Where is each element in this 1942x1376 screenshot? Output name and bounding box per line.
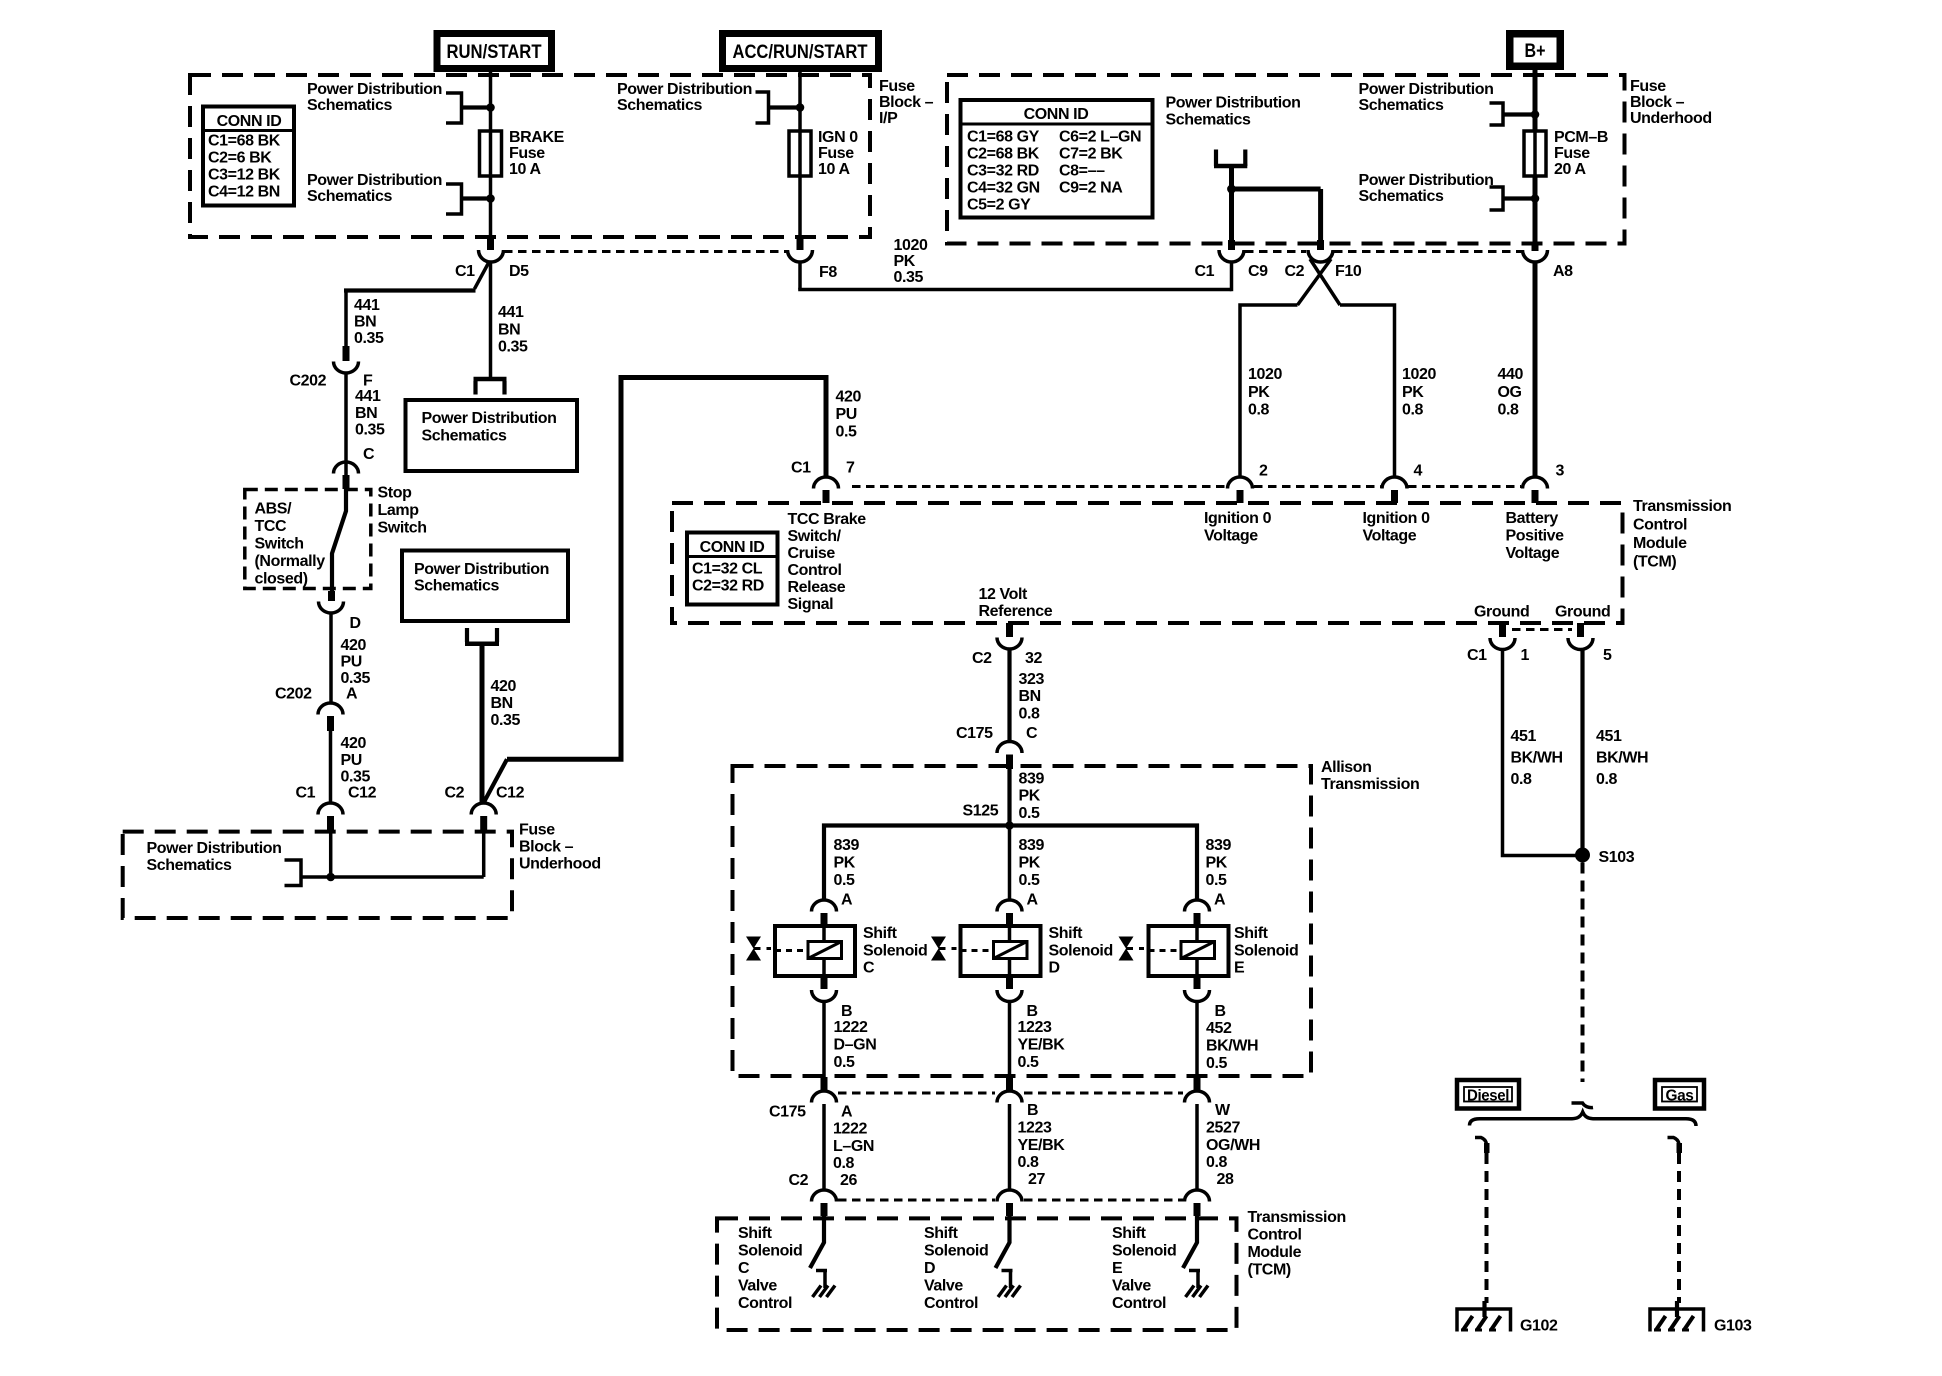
shift solenoid D internal dashed link [961, 949, 994, 952]
connector face dashed line F10 to A8 [1334, 250, 1521, 253]
svg-text:Switch: Switch [378, 520, 427, 537]
svg-text:S103: S103 [1599, 849, 1635, 866]
svg-text:C9=2 NA: C9=2 NA [1059, 180, 1123, 197]
wire BRAKE fuse to D5 [489, 176, 493, 237]
svg-text:C12: C12 [348, 785, 377, 802]
svg-text:Schematics: Schematics [414, 578, 499, 595]
wire IGN fuse to F8 [798, 176, 802, 237]
connector face dashed line D5 to F8 [504, 250, 786, 253]
wire 1222 L-GN [822, 1104, 826, 1190]
wire 440 OG A8 to pin3 [1533, 262, 1538, 477]
svg-text:C1: C1 [455, 263, 475, 280]
label 323 BN 0.8 [1019, 671, 1045, 723]
wire C9 down [1230, 262, 1234, 291]
connector C2/32 cup [997, 638, 1022, 650]
wire 323 BN [1007, 649, 1011, 742]
svg-text:Power Distribution: Power Distribution [422, 410, 557, 427]
label Ignition 0 Voltage (pin2) [1204, 510, 1272, 545]
svg-text:Lamp: Lamp [378, 502, 420, 519]
connector C2/C12 stub [480, 816, 487, 832]
svg-text:D–GN: D–GN [834, 1037, 877, 1054]
wire C175/C to S125 [1007, 769, 1011, 826]
ground (solenoid C driver) [813, 1286, 836, 1298]
wire 1223 YE/BK [1008, 1002, 1012, 1092]
svg-text:D: D [924, 1260, 935, 1277]
svg-text:CONN ID: CONN ID [217, 113, 282, 130]
svg-text:441: 441 [355, 388, 381, 405]
reference text Power Distribution Schematics (lower-left) [147, 840, 282, 874]
svg-text:3: 3 [1556, 463, 1565, 480]
svg-text:F10: F10 [1335, 263, 1362, 280]
svg-text:0.5: 0.5 [1206, 1055, 1228, 1072]
wire C1 to C2 inside box [301, 875, 484, 879]
svg-text:A: A [1214, 892, 1226, 909]
svg-text:5: 5 [1603, 647, 1612, 664]
svg-text:0.5: 0.5 [1206, 872, 1228, 889]
label 452 BK/WH 0.5 [1206, 1020, 1258, 1072]
svg-text:PU: PU [341, 654, 362, 671]
svg-text:C8=––: C8=–– [1059, 163, 1105, 180]
junction dot [1531, 110, 1540, 119]
fuse BRAKE 10A [480, 131, 502, 176]
label 451 BK/WH 0.8 (right) [1596, 728, 1648, 788]
label 1223 YE/BK 0.5 [1018, 1019, 1066, 1071]
svg-text:Shift: Shift [1112, 1225, 1147, 1242]
connector C1/C9 cup [1219, 250, 1244, 262]
svg-text:BN: BN [355, 405, 377, 422]
svg-text:Shift: Shift [863, 925, 898, 942]
svg-text:Valve: Valve [1112, 1278, 1151, 1295]
shift solenoid E box [1149, 926, 1229, 976]
wire 2527 OG/WH [1195, 1104, 1199, 1190]
svg-text:Voltage: Voltage [1204, 528, 1258, 545]
svg-text:Release: Release [788, 579, 846, 596]
svg-text:(TCM): (TCM) [1633, 554, 1676, 571]
svg-text:C4=32 GN: C4=32 GN [967, 180, 1040, 197]
inline connector hook (Gas branch) [1668, 1138, 1680, 1145]
label 1223 YE/BK 0.8 [1018, 1120, 1066, 1172]
svg-text:Schematics: Schematics [307, 97, 392, 114]
shift solenoid E pin A stub [1194, 913, 1201, 926]
svg-text:B: B [1027, 1003, 1038, 1020]
valve symbol (solenoid C) [746, 937, 761, 961]
connector C2/28 stub [1194, 1203, 1201, 1216]
wire 420 PU riser from fuse block to TCC [507, 378, 826, 760]
svg-text:Power Distribution: Power Distribution [1359, 81, 1494, 98]
svg-text:Voltage: Voltage [1363, 528, 1417, 545]
svg-text:C4=12 BN: C4=12 BN [208, 184, 280, 201]
svg-text:Control: Control [738, 1295, 792, 1312]
label 441 BN 0.35 (below C202) [355, 388, 385, 439]
Allison Transmission dashed box [733, 766, 1312, 1076]
label 12 Volt Reference [979, 586, 1053, 620]
label 420 PU 0.35 (lower) [341, 735, 371, 786]
svg-text:C2=6 BK: C2=6 BK [208, 150, 272, 167]
label Battery Positive Voltage [1506, 510, 1565, 562]
svg-text:10 A: 10 A [818, 161, 850, 178]
label 441 BN 0.35 (D5 branch) [498, 304, 528, 356]
connector C1/C12 dome [318, 803, 343, 815]
connector C175/B stub [1006, 1077, 1013, 1090]
shift solenoid E internal dashed link [1149, 949, 1182, 952]
svg-text:Power Distribution: Power Distribution [617, 81, 752, 98]
svg-text:Underhood: Underhood [1630, 110, 1712, 127]
reference text Power Distribution Schematics (PCM lower) [1359, 172, 1494, 205]
svg-text:ACC/RUN/START: ACC/RUN/START [733, 42, 868, 63]
svg-text:C202: C202 [290, 373, 327, 390]
svg-text:Shift: Shift [1234, 925, 1269, 942]
svg-text:PK: PK [894, 253, 916, 270]
svg-text:C: C [363, 446, 375, 463]
reference bracket (IGN) [756, 92, 769, 123]
connector C2/27 dome [997, 1190, 1022, 1202]
svg-text:A: A [346, 686, 358, 703]
label Shift Solenoid E [1234, 925, 1298, 977]
connector C2/28 dome [1185, 1190, 1210, 1202]
wire 420 BN down to C2/C12 [480, 644, 485, 803]
valve symbol (solenoid D) [931, 937, 946, 961]
svg-text:Control: Control [1633, 517, 1687, 534]
svg-text:Control: Control [1112, 1295, 1166, 1312]
svg-text:BRAKE: BRAKE [509, 129, 565, 146]
label 839 PK 0.5 (top) [1019, 771, 1045, 823]
connector face dashed line TCM top [852, 485, 1226, 488]
schematic entry symbol (mid top) [1216, 150, 1245, 167]
svg-text:PK: PK [1206, 855, 1228, 872]
connector face dashed line C2 row [838, 1199, 995, 1202]
svg-text:C1: C1 [1195, 263, 1215, 280]
svg-text:Diesel: Diesel [1467, 1088, 1509, 1105]
svg-text:Fuse: Fuse [818, 145, 854, 162]
connector C175/W dome [1185, 1091, 1210, 1103]
svg-text:420: 420 [836, 389, 862, 406]
svg-text:YE/BK: YE/BK [1018, 1037, 1066, 1054]
svg-text:0.8: 0.8 [1206, 1154, 1228, 1171]
svg-text:C3=12 BK: C3=12 BK [208, 167, 281, 184]
svg-text:Block –: Block – [519, 839, 574, 856]
wire horizontal to left chain [344, 288, 476, 292]
connector C1/D5 stub [487, 237, 494, 250]
connector pin2 dome [1228, 477, 1253, 489]
svg-text:C12: C12 [496, 785, 525, 802]
shift solenoid E pin A dome [1185, 900, 1210, 912]
wire left branch 1020 PK to pin2 [1240, 305, 1298, 477]
svg-text:A8: A8 [1553, 263, 1573, 280]
svg-text:TCC: TCC [255, 518, 288, 535]
ABS/TCC switch dashed box [245, 490, 371, 589]
svg-text:0.5: 0.5 [836, 424, 858, 441]
svg-text:0.5: 0.5 [1018, 1054, 1040, 1071]
svg-text:1222: 1222 [834, 1019, 868, 1036]
svg-text:Control: Control [924, 1295, 978, 1312]
wire dashed Diesel branch stub [1484, 1143, 1490, 1153]
connector C1/C12 stub [327, 816, 334, 832]
driver switch D [996, 1216, 1010, 1268]
svg-text:452: 452 [1206, 1020, 1232, 1037]
fuse IGN 0 10A [789, 131, 811, 176]
svg-text:10 A: 10 A [509, 161, 541, 178]
CONN ID table (fuse block underhood) [961, 100, 1153, 218]
svg-text:Switch/: Switch/ [788, 528, 842, 545]
label 2527 OG/WH 0.8 [1206, 1120, 1260, 1172]
svg-text:C2=32 RD: C2=32 RD [692, 578, 764, 595]
wire PCM-B fuse to A8 [1533, 176, 1538, 244]
svg-text:Schematics: Schematics [1359, 97, 1444, 114]
label Fuse Block Underhood [1630, 78, 1712, 127]
svg-text:C5=2 GY: C5=2 GY [967, 197, 1031, 214]
svg-text:0.35: 0.35 [894, 269, 924, 286]
wire diagonal into C2/C12 [484, 759, 507, 802]
connector C1/7 dome [814, 477, 839, 489]
svg-text:0.8: 0.8 [1019, 706, 1041, 723]
connector C dome [334, 462, 359, 474]
svg-text:OG/WH: OG/WH [1206, 1137, 1260, 1154]
svg-text:PK: PK [834, 855, 856, 872]
svg-text:Fuse: Fuse [879, 78, 915, 95]
connector C175/A dome [812, 1091, 837, 1103]
label 1020 PK 0.8 (left) [1248, 366, 1282, 419]
svg-text:D: D [1049, 960, 1060, 977]
connector C1/7 stub [823, 490, 830, 503]
svg-text:2527: 2527 [1206, 1120, 1240, 1137]
svg-text:Shift: Shift [738, 1225, 773, 1242]
connector C175/C dome [997, 742, 1022, 753]
wire F8 down [798, 262, 802, 290]
wire right branch 1020 PK to pin4 [1340, 305, 1395, 477]
svg-text:Power Distribution: Power Distribution [307, 172, 442, 189]
svg-text:PK: PK [1402, 384, 1424, 401]
shift solenoid D coil [994, 942, 1028, 959]
svg-text:Valve: Valve [924, 1278, 963, 1295]
svg-text:Stop: Stop [378, 485, 413, 502]
svg-text:Schematics: Schematics [1166, 112, 1251, 129]
shift solenoid E pin B stub [1194, 976, 1201, 989]
label Shift Solenoid C Valve Control [738, 1225, 802, 1312]
svg-text:YE/BK: YE/BK [1018, 1137, 1066, 1154]
svg-text:27: 27 [1028, 1171, 1045, 1188]
svg-text:Block –: Block – [879, 94, 934, 111]
svg-text:Fuse: Fuse [519, 822, 555, 839]
svg-text:C175: C175 [956, 725, 993, 742]
connector pin3 stub [1532, 490, 1539, 503]
svg-text:Fuse: Fuse [1554, 145, 1590, 162]
connector pin2 stub [1237, 490, 1244, 503]
svg-text:Solenoid: Solenoid [924, 1243, 988, 1260]
svg-text:I/P: I/P [879, 110, 898, 127]
svg-text:Power Distribution: Power Distribution [1166, 95, 1301, 112]
CONN ID table (fuse block I/P) [203, 107, 294, 206]
svg-text:Module: Module [1248, 1244, 1302, 1261]
svg-text:BK/WH: BK/WH [1206, 1038, 1258, 1055]
ground G102 [1457, 1301, 1511, 1332]
shift solenoid D box [961, 926, 1041, 976]
connector C2/27 stub [1006, 1203, 1013, 1216]
ground G103 [1650, 1301, 1704, 1332]
svg-text:PU: PU [836, 406, 857, 423]
splice dot S103 [1575, 848, 1590, 863]
svg-text:Fuse: Fuse [509, 145, 545, 162]
junction dot [796, 103, 805, 112]
connector C202/F cup [334, 362, 359, 374]
svg-text:28: 28 [1217, 1171, 1234, 1188]
connector face dashed line C175 [838, 1092, 995, 1095]
connector C175/C stub [1006, 755, 1013, 770]
svg-text:Control: Control [788, 562, 842, 579]
svg-text:0.8: 0.8 [833, 1155, 855, 1172]
wire C1/C12 into box [329, 832, 333, 877]
shift solenoid E pin B cup [1185, 990, 1210, 1002]
label 839 PK 0.5 A (solenoid E) [1206, 837, 1232, 909]
svg-text:Underhood: Underhood [519, 856, 601, 873]
svg-text:Schematics: Schematics [1359, 188, 1444, 205]
wire dashed S103 down [1581, 863, 1585, 1083]
wire D5 down 441 BN [489, 262, 493, 379]
inline connector hook (Diesel branch) [1475, 1138, 1487, 1145]
label TCC Brake Switch Cruise Control Release Signal [788, 511, 867, 613]
svg-text:PK: PK [1019, 788, 1041, 805]
svg-text:BK/WH: BK/WH [1511, 750, 1563, 767]
connector D stub [328, 591, 335, 601]
svg-text:Block –: Block – [1630, 94, 1685, 111]
svg-text:Power Distribution: Power Distribution [307, 81, 442, 98]
svg-text:closed): closed) [255, 571, 308, 588]
svg-text:420: 420 [341, 735, 367, 752]
label 451 BK/WH 0.8 (left) [1511, 728, 1563, 788]
label 420 BN 0.35 [491, 678, 521, 729]
svg-text:OG: OG [1498, 384, 1522, 401]
connector ground C1/1 stub [1499, 623, 1506, 637]
shift solenoid C pin A stub [821, 913, 828, 926]
svg-text:839: 839 [1019, 837, 1045, 854]
label 440 OG 0.8 [1498, 366, 1524, 419]
label 441 BN 0.35 (left branch) [354, 297, 384, 347]
svg-text:0.35: 0.35 [498, 339, 528, 356]
label 1222 D-GN 0.5 [834, 1019, 877, 1071]
wire C202 A down 420 PU [329, 731, 333, 803]
connector C175/W stub [1194, 1077, 1201, 1090]
schematic entry symbol (PDS box 1) [476, 381, 505, 395]
svg-text:L–GN: L–GN [833, 1138, 874, 1155]
reference bracket (brake lower) [446, 184, 462, 214]
fuse PCM-B 20A [1524, 131, 1546, 176]
connector pin4 stub [1391, 490, 1398, 503]
label 420 PU 0.35 (upper) [341, 637, 371, 687]
wire C2/C12 into box [482, 832, 486, 877]
svg-text:441: 441 [498, 304, 524, 321]
label Fuse Block Underhood (lower-left) [519, 822, 601, 873]
svg-text:1223: 1223 [1018, 1019, 1052, 1036]
svg-text:0.5: 0.5 [834, 1054, 856, 1071]
svg-text:0.35: 0.35 [341, 670, 371, 687]
wire dashed to G103 [1677, 1153, 1681, 1303]
svg-text:G103: G103 [1714, 1318, 1752, 1335]
label Allison Transmission [1321, 759, 1419, 793]
svg-text:G102: G102 [1520, 1318, 1558, 1335]
connector face dashed line grounds [1512, 628, 1572, 631]
svg-text:12 Volt: 12 Volt [979, 586, 1029, 603]
shift solenoid C pin B cup [812, 990, 837, 1002]
svg-text:Power Distribution: Power Distribution [147, 840, 282, 857]
svg-text:C1=32 CL: C1=32 CL [692, 561, 763, 578]
svg-text:0.35: 0.35 [491, 712, 521, 729]
svg-text:C: C [863, 960, 875, 977]
label Ignition 0 Voltage (pin4) [1363, 510, 1431, 545]
inline connector hook (S103 branch) [1572, 1103, 1594, 1108]
label 1222 L-GN 0.8 [833, 1121, 874, 1173]
label 839 PK 0.5 A (solenoid D) [1019, 837, 1045, 909]
shift solenoid D pin B cup [997, 990, 1022, 1002]
svg-text:CONN ID: CONN ID [1024, 106, 1089, 123]
wire 1020 PK 0.35 horizontal [798, 288, 1231, 292]
label Shift Solenoid D [1049, 925, 1113, 977]
svg-text:B+: B+ [1525, 41, 1546, 62]
svg-text:Positive: Positive [1506, 528, 1565, 545]
svg-text:Signal: Signal [788, 596, 834, 613]
svg-text:0.35: 0.35 [341, 769, 371, 786]
svg-text:(TCM): (TCM) [1248, 1262, 1291, 1279]
TCM lower dashed box [717, 1218, 1237, 1330]
svg-text:1020: 1020 [1248, 366, 1282, 383]
svg-text:Battery: Battery [1506, 510, 1559, 527]
connector D cup [319, 602, 344, 614]
svg-text:1: 1 [1521, 647, 1530, 664]
svg-text:451: 451 [1511, 728, 1537, 745]
shift solenoid C pin A dome [812, 900, 837, 912]
TCM main dashed box [672, 503, 1623, 623]
valve symbol (solenoid E) [1119, 937, 1134, 961]
svg-text:0.5: 0.5 [1019, 872, 1041, 889]
label Shift Solenoid D Valve Control [924, 1225, 988, 1312]
svg-text:839: 839 [834, 837, 860, 854]
svg-text:Schematics: Schematics [307, 188, 392, 205]
connector C2/C12 dome [471, 803, 496, 815]
svg-text:Cruise: Cruise [788, 545, 836, 562]
svg-text:C2: C2 [445, 785, 465, 802]
switch blade stop lamp [332, 489, 346, 591]
reference bracket (brake upper) [446, 93, 462, 123]
reference bracket (PCM lower) [1490, 187, 1504, 210]
svg-text:Reference: Reference [979, 603, 1053, 620]
svg-text:C7=2 BK: C7=2 BK [1059, 146, 1123, 163]
power label B+ [1506, 30, 1564, 70]
connector C175/A stub [821, 1077, 828, 1090]
connector C2/F10 stub [1317, 240, 1324, 250]
svg-text:451: 451 [1596, 728, 1622, 745]
wire D down 420 PU [329, 614, 333, 704]
junction dot [1531, 194, 1540, 203]
wire 452 BK/WH [1195, 1002, 1199, 1092]
label 420 PU 0.5 [836, 389, 862, 441]
svg-text:PCM–B: PCM–B [1554, 129, 1608, 146]
wire dashed to G102 [1485, 1153, 1489, 1303]
shift solenoid D pin A dome [997, 900, 1022, 912]
wire C202 F down [344, 373, 348, 490]
connector A8 stub [1532, 244, 1539, 252]
wire RUN/START to BRAKE fuse [489, 72, 493, 131]
shift solenoid C box [775, 926, 855, 976]
wire 451 BK/WH right [1580, 650, 1584, 862]
box Power Distribution Schematics 1 [406, 400, 578, 471]
reference text Power Distribution Schematics (brake lower) [307, 172, 442, 205]
label Stop Lamp Switch [378, 485, 427, 537]
svg-text:C: C [1026, 725, 1038, 742]
connector C202/A stub [327, 716, 334, 731]
svg-text:0.35: 0.35 [355, 422, 385, 439]
box Power Distribution Schematics 2 [402, 551, 568, 622]
svg-text:Schematics: Schematics [422, 428, 507, 445]
svg-text:(Normally: (Normally [255, 553, 326, 570]
svg-text:D5: D5 [509, 263, 529, 280]
